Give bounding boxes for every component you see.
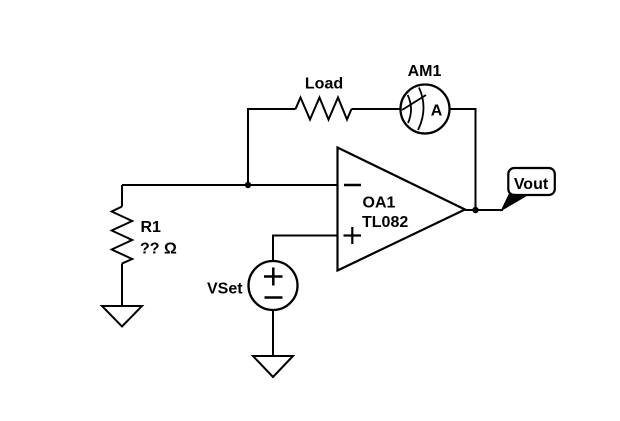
ground (below R1): [102, 306, 142, 327]
op-amp minus sign: [344, 184, 361, 187]
svg-text:TL082: TL082: [362, 214, 408, 231]
AM1 meter needle: [402, 95, 426, 110]
resistor Load: [296, 98, 352, 120]
wire R1 top lead: [121, 185, 123, 207]
node A (junction on inverting net): [245, 182, 251, 188]
op-amp OA1 triangle: [338, 148, 466, 271]
svg-text:VSet: VSet: [207, 281, 243, 298]
svg-text:Load: Load: [305, 76, 343, 93]
AM1 meter scale arc small: [408, 95, 411, 123]
ground (below VSet): [253, 356, 293, 377]
svg-text:R1: R1: [141, 219, 162, 236]
wire R1 bottom lead: [121, 264, 123, 307]
svg-text:A: A: [431, 103, 443, 120]
voltage source VSet body: [249, 261, 298, 310]
resistor R1: [112, 207, 133, 264]
wire AM1 to output node: [450, 109, 476, 210]
wire output to Vout flag: [465, 209, 503, 211]
svg-text:AM1: AM1: [408, 63, 442, 80]
wire junction up to feedback top: [248, 109, 296, 185]
AM1 meter scale arc large: [418, 88, 424, 131]
VSet minus sign: [265, 296, 283, 299]
svg-text:Vout: Vout: [514, 176, 549, 193]
ammeter AM1 body: [401, 85, 450, 134]
svg-text:OA1: OA1: [363, 195, 396, 212]
VSet plus sign: [264, 268, 283, 286]
op-amp plus sign: [344, 227, 362, 244]
Vout flag box: [508, 168, 555, 195]
wire main horizontal (inverting input net): [122, 184, 338, 186]
wire VSet bottom lead: [272, 310, 274, 356]
wire Load to AM1: [352, 108, 401, 110]
node output junction: [472, 207, 478, 213]
wire non-inverting input: [273, 236, 338, 262]
svg-text:?? Ω: ?? Ω: [140, 241, 177, 258]
Vout flag tail: [500, 194, 529, 212]
